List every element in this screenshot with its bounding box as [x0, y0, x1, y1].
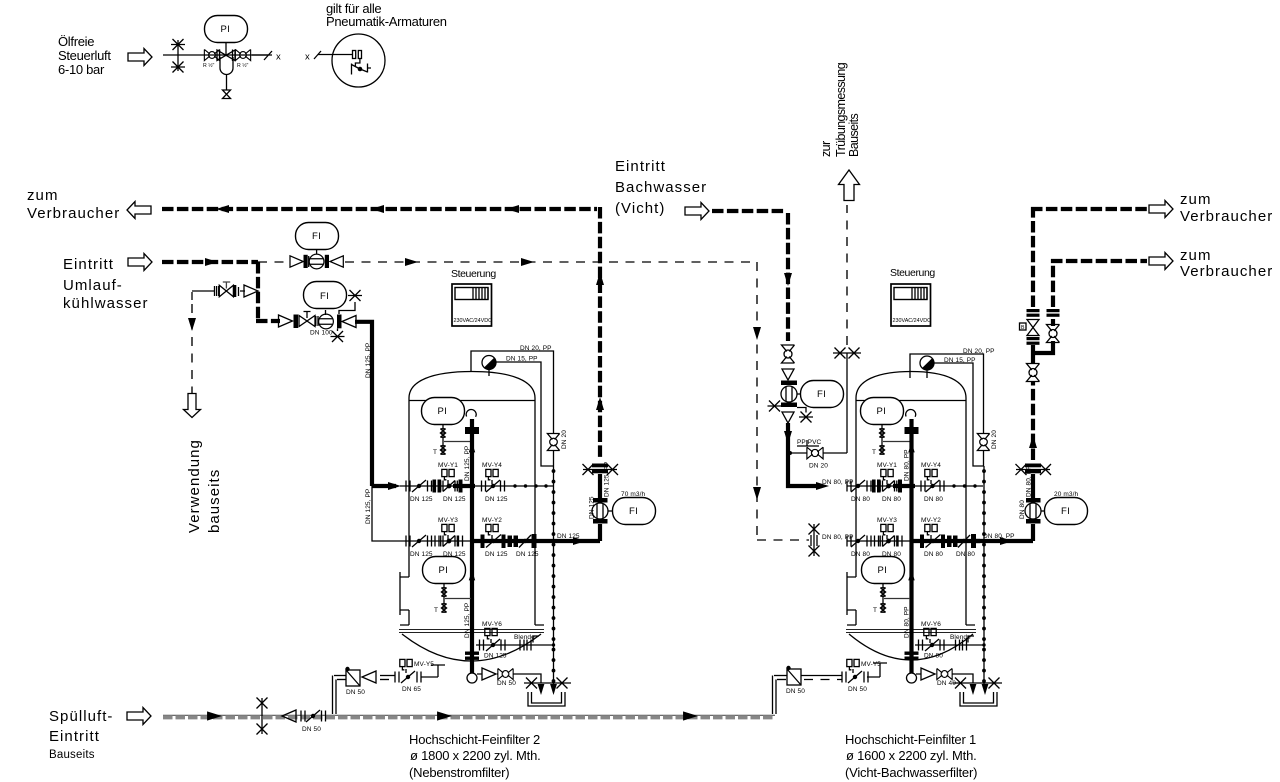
svg-text:DN 15, PP: DN 15, PP: [944, 357, 976, 364]
svg-text:MV-Y6: MV-Y6: [921, 621, 941, 628]
arrowhead spuelluft 2: [437, 711, 452, 720]
outlet column filter2: [583, 462, 619, 541]
pipe umlauf corner down: [256, 262, 260, 319]
svg-text:DN 80, PP: DN 80, PP: [904, 449, 911, 481]
drain exit stars vessel2: [953, 678, 1002, 707]
svg-text:DN 80: DN 80: [956, 551, 975, 558]
svg-text:Hochschicht-Feinfilter 2: Hochschicht-Feinfilter 2: [409, 732, 540, 747]
filter regulator legend: [217, 50, 235, 99]
svg-text:Pneumatik-Armaturen: Pneumatik-Armaturen: [326, 14, 447, 29]
pipe top product line: [162, 207, 597, 211]
svg-text:Umlauf-: Umlauf-: [63, 277, 123, 294]
svg-text:DN 80: DN 80: [882, 496, 901, 503]
svg-text:DN 80: DN 80: [851, 551, 870, 558]
pipe branch to row2: [372, 486, 406, 541]
star flange filter1 row2 inlet: [809, 524, 820, 557]
label Eintritt Bachwasser: [615, 158, 707, 217]
instrument PI legend: [205, 16, 248, 56]
svg-text:DN 80: DN 80: [924, 551, 943, 558]
arrow inlet umlauf: [128, 254, 152, 271]
vent star right of FI: [339, 290, 362, 314]
pipe to consumer right 2: [1051, 259, 1147, 263]
svg-text:230VAC/24VDC: 230VAC/24VDC: [893, 318, 932, 324]
arrowhead bachwasser down: [784, 273, 792, 286]
vessel shell filter1: [846, 372, 976, 661]
svg-text:DN 125, PP: DN 125, PP: [365, 343, 372, 378]
svg-text:DN 125, PP: DN 125, PP: [365, 489, 372, 524]
wire to x: [252, 51, 281, 63]
svg-text:Eintritt: Eintritt: [615, 158, 666, 175]
valve DN20 f1: [977, 430, 998, 451]
row1 manifold vessel2: [847, 462, 983, 503]
svg-text:FI: FI: [817, 389, 826, 400]
svg-text:DN 65: DN 65: [402, 686, 421, 693]
svg-text:T: T: [433, 449, 437, 456]
svg-text:DN 125, PP: DN 125, PP: [604, 462, 611, 497]
svg-text:MV-Y1: MV-Y1: [438, 462, 458, 469]
pipe to consumer right 1: [1031, 207, 1147, 211]
arrow verwendung bauseits outline: [184, 394, 201, 418]
svg-text:FI: FI: [1061, 506, 1070, 517]
label oelfreie steuerluft: [58, 34, 111, 77]
arrowhead up 1: [596, 272, 604, 285]
hand valve branch line: [192, 286, 245, 296]
svg-text:DN 125, PP: DN 125, PP: [464, 603, 471, 638]
svg-text:zur: zur: [819, 141, 833, 157]
pressure gauge vessel1: [482, 356, 496, 377]
svg-text:DN 125: DN 125: [410, 496, 433, 503]
control box Steuerung filter2: [451, 268, 496, 326]
pipe DN20 vent f1: [910, 354, 984, 466]
valve spuelluft DN50: [282, 710, 326, 733]
label zur Truebungsmessung rotated: [819, 62, 861, 157]
vent star below feed: [331, 329, 345, 343]
svg-text:DN 15, PP: DN 15, PP: [506, 356, 538, 363]
svg-text:DN 125: DN 125: [557, 533, 580, 540]
arrowhead left 2: [371, 205, 384, 213]
svg-text:DN 50: DN 50: [497, 680, 516, 687]
svg-text:DN 125: DN 125: [516, 551, 539, 558]
label Eintritt Umlaufkuehlwasser: [63, 256, 149, 312]
svg-text:MV-Y3: MV-Y3: [877, 517, 897, 524]
svg-text:MV-Y5: MV-Y5: [861, 661, 881, 668]
svg-text:PI: PI: [438, 406, 448, 417]
instrument FI 70m3h: [613, 491, 656, 525]
pipe feed riser filter2: [355, 320, 372, 486]
svg-text:DN 20, PP: DN 20, PP: [963, 348, 995, 355]
reducer down: [782, 369, 794, 380]
riser pipe vessel2: [904, 409, 919, 683]
row2 manifold vessel2: [847, 517, 980, 558]
svg-text:Bauseits: Bauseits: [847, 114, 861, 157]
check triangle to riser: [244, 285, 258, 297]
svg-text:DN 80: DN 80: [1019, 500, 1026, 519]
svg-text:PI: PI: [877, 406, 887, 417]
arrowhead air right 1: [405, 258, 418, 266]
svg-text:FI: FI: [312, 231, 321, 242]
label zum Verbraucher left: [27, 187, 120, 222]
valve R1/2 left: [203, 49, 220, 69]
arrowhead right: [205, 258, 218, 266]
pipe row2 to outlet: [540, 533, 600, 545]
instrument FI filter2 feed: [304, 282, 347, 316]
svg-text:Steuerung: Steuerung: [890, 267, 935, 279]
backwash air MV-Y5 vessel1: [333, 659, 446, 714]
arrowhead up 2: [596, 397, 604, 410]
svg-text:Eintritt: Eintritt: [63, 256, 114, 273]
arrowhead feed row1 f1: [816, 482, 829, 490]
backwash air MV-Y5 vessel2: [773, 659, 888, 714]
pipe filter1 feed down: [788, 423, 816, 486]
arrowhead down verwendung: [188, 318, 196, 331]
instrument FI 20m3h: [1045, 491, 1088, 525]
pipe bachwasser: [712, 211, 788, 341]
svg-text:230VAC/24VDC: 230VAC/24VDC: [454, 318, 493, 324]
svg-text:Verbraucher: Verbraucher: [1180, 263, 1273, 280]
svg-text:Spülluft-: Spülluft-: [49, 708, 113, 725]
control box Steuerung filter1: [890, 267, 935, 326]
flow meter filter1 feed: [781, 386, 797, 402]
pipe spuelluft gray: [163, 715, 775, 717]
drain exit stars vessel1: [524, 678, 571, 707]
svg-text:MV-Y4: MV-Y4: [482, 462, 502, 469]
svg-text:DN 20: DN 20: [991, 430, 998, 449]
pipe corner to filter2 outlet riser: [598, 207, 602, 460]
svg-text:ø 1800 x 2200 zyl. Mth.: ø 1800 x 2200 zyl. Mth.: [410, 748, 541, 763]
arrowhead left 3: [506, 205, 519, 213]
arrow spuelluft inlet: [127, 708, 151, 725]
svg-text:MV-Y2: MV-Y2: [482, 517, 502, 524]
pipe sample dashed up: [846, 205, 848, 345]
svg-text:Verbraucher: Verbraucher: [27, 205, 120, 222]
pressure gauge vessel2: [920, 356, 934, 378]
svg-text:MV-Y4: MV-Y4: [921, 462, 941, 469]
svg-text:DN 125: DN 125: [410, 551, 433, 558]
svg-text:T: T: [872, 449, 876, 456]
row1 manifold vessel1: [400, 462, 553, 503]
svg-text:MV-Y1: MV-Y1: [877, 462, 897, 469]
svg-text:Steuerung: Steuerung: [451, 268, 496, 280]
pipe control air down to filter1 row2: [756, 262, 758, 538]
svg-text:MV-Y2: MV-Y2: [921, 517, 941, 524]
svg-text:DN 125: DN 125: [485, 551, 508, 558]
svg-text:DN 80, PP: DN 80, PP: [904, 606, 911, 638]
svg-text:kühlwasser: kühlwasser: [63, 295, 149, 312]
svg-text:PI: PI: [439, 565, 449, 576]
valve DN20: [547, 430, 568, 451]
pipe DN20 vent: [471, 351, 554, 466]
arrowhead air down 1: [753, 327, 761, 340]
svg-text:Trübungsmessung: Trübungsmessung: [834, 62, 848, 157]
flow meter umlauf bypass: [290, 254, 343, 269]
arrow steuerluft inlet: [128, 49, 152, 66]
pipe air to row2 star: [757, 539, 809, 541]
drain beaded line vessel1: [553, 466, 555, 686]
svg-text:bauseits: bauseits: [206, 469, 223, 533]
caption filter2: [409, 732, 541, 780]
svg-text:DN 80: DN 80: [924, 496, 943, 503]
arrow to truebung outline up: [839, 170, 860, 201]
svg-text:DN 20: DN 20: [561, 430, 568, 449]
arrow right 2: [1149, 253, 1173, 270]
svg-text:Verbraucher: Verbraucher: [1180, 208, 1273, 225]
node x to solenoid circle: [305, 51, 353, 63]
svg-text:FI: FI: [629, 506, 638, 517]
svg-text:x: x: [276, 52, 281, 63]
svg-text:ø 1600 x 2200 zyl. Mth.: ø 1600 x 2200 zyl. Mth.: [846, 748, 977, 763]
instrument PI vessel2 bottom: [862, 557, 911, 615]
hand valve verwendung: [219, 282, 236, 297]
svg-text:(Nebenstromfilter): (Nebenstromfilter): [409, 765, 509, 780]
reducer down 2: [782, 412, 794, 423]
solenoid pilot circle: [332, 34, 385, 87]
svg-text:DN 80, PP: DN 80, PP: [1026, 465, 1033, 497]
svg-text:Ölfreie: Ölfreie: [58, 34, 94, 49]
svg-text:zum: zum: [27, 187, 59, 204]
drain DN50 vessel1: [477, 668, 541, 687]
svg-text:(Vicht): (Vicht): [615, 200, 665, 217]
vent star left: [768, 401, 782, 412]
svg-text:PI: PI: [878, 565, 888, 576]
svg-text:PP PVC: PP PVC: [797, 439, 822, 446]
row2 manifold vessel1: [406, 517, 540, 558]
instrument PI vessel1 bottom: [423, 557, 472, 615]
svg-text:DN 100: DN 100: [310, 330, 333, 337]
svg-text:DN 50: DN 50: [302, 726, 321, 733]
valve bachwasser isolation: [782, 345, 795, 363]
pipe feed into row1: [372, 484, 396, 488]
svg-text:DN 125: DN 125: [443, 496, 466, 503]
branch to second consumer: [1033, 263, 1060, 353]
wire legend main: [163, 54, 272, 56]
pipe row2 to outlet f1: [976, 533, 1033, 545]
vent star legend: [171, 39, 185, 73]
svg-text:DN 20: DN 20: [809, 463, 828, 470]
instrument PI vessel1 top: [422, 398, 472, 457]
vent stars sample: [833, 348, 861, 359]
outlet column filter1 lower: [1016, 464, 1052, 542]
svg-text:DN 80, PP: DN 80, PP: [822, 534, 854, 541]
svg-text:DN 80: DN 80: [851, 496, 870, 503]
backwash outlet MV-Y6 f1: [915, 621, 986, 660]
vessel shell filter2: [399, 372, 544, 662]
svg-text:DN 125, PP: DN 125, PP: [464, 446, 471, 481]
svg-text:Verwendung: Verwendung: [186, 439, 203, 533]
arrow right 1: [1149, 201, 1173, 218]
arrowhead feed row1: [388, 482, 401, 490]
instrument FI filter1 feed: [797, 381, 844, 408]
label spuelluft: [49, 708, 113, 761]
svg-text:DN 80, PP: DN 80, PP: [822, 479, 854, 486]
svg-text:Bachwasser: Bachwasser: [615, 179, 707, 196]
label gilt fuer alle: [326, 1, 447, 29]
label Verwendung bauseits rotated: [186, 439, 223, 533]
svg-text:MV-Y6: MV-Y6: [482, 621, 502, 628]
valve R1/2 right: [235, 49, 250, 69]
drain DN40 vessel2: [916, 668, 973, 687]
arrowhead left 1: [216, 205, 229, 213]
svg-text:DN 20, PP: DN 20, PP: [520, 345, 552, 352]
svg-text:Eintritt: Eintritt: [49, 728, 100, 745]
arrowhead spuelluft 1: [207, 711, 222, 720]
svg-text:FI: FI: [320, 291, 329, 302]
instrument PI vessel2 top: [861, 398, 911, 457]
flange feed meter top: [781, 381, 797, 386]
svg-text:DN 125: DN 125: [484, 653, 507, 660]
label zum Verbraucher right 1: [1180, 191, 1273, 225]
svg-text:(Vicht-Bachwasserfilter): (Vicht-Bachwasserfilter): [845, 765, 977, 780]
drain beaded line vessel2: [983, 466, 985, 686]
arrow bachwasser inlet: [685, 203, 709, 220]
arrow to consumer left: [127, 202, 151, 219]
pipe verwendung dashed down: [191, 292, 193, 393]
svg-text:DN 125: DN 125: [589, 496, 596, 519]
svg-text:Bauseits: Bauseits: [49, 749, 95, 761]
sample line PP PVC: [790, 439, 847, 470]
svg-text:DN 50: DN 50: [848, 686, 867, 693]
svg-text:zum: zum: [1180, 247, 1212, 264]
backwash outlet MV-Y6: [476, 621, 555, 660]
svg-text:Steuerluft: Steuerluft: [58, 48, 111, 63]
label zum Verbraucher right 2: [1180, 247, 1273, 280]
caption filter1: [845, 732, 977, 780]
outlet column filter1 upper: [1020, 211, 1040, 460]
svg-text:6-10 bar: 6-10 bar: [58, 62, 105, 77]
svg-text:Hochschicht-Feinfilter 1: Hochschicht-Feinfilter 1: [845, 732, 976, 747]
riser pipe vessel1: [464, 409, 479, 683]
svg-text:zum: zum: [1180, 191, 1212, 208]
svg-text:MV-Y3: MV-Y3: [438, 517, 458, 524]
svg-text:DN 125: DN 125: [485, 496, 508, 503]
arrowhead feed down: [784, 431, 792, 444]
vent star spuelluft: [257, 698, 268, 735]
vent star lower right: [797, 408, 813, 423]
pipe control air dashed: [258, 261, 755, 263]
svg-text:R ½": R ½": [237, 62, 249, 69]
svg-text:MV-Y5: MV-Y5: [414, 661, 434, 668]
svg-text:DN 80, PP: DN 80, PP: [983, 533, 1015, 540]
svg-text:R ½": R ½": [203, 62, 215, 69]
pipe umlauf inlet: [162, 260, 258, 264]
svg-text:Blende: Blende: [514, 634, 535, 641]
svg-text:T: T: [434, 607, 438, 614]
arrowhead air right 2: [521, 258, 534, 266]
pipe umlauf to filter2 feed: [256, 319, 280, 323]
svg-text:T: T: [873, 607, 877, 614]
pipe DN15: [496, 362, 554, 466]
svg-text:DN 80: DN 80: [924, 653, 943, 660]
pipe DN15 f1: [934, 363, 984, 466]
instrument FI umlauf: [296, 223, 339, 255]
svg-text:DN 50: DN 50: [786, 688, 805, 695]
pipe sample riser: [846, 353, 848, 453]
flange feed meter bottom: [781, 403, 797, 408]
svg-text:x: x: [305, 52, 310, 63]
arrowhead air down 2: [753, 487, 761, 500]
svg-text:B: B: [1021, 325, 1025, 331]
svg-text:PI: PI: [221, 24, 231, 35]
svg-text:DN 50: DN 50: [346, 689, 365, 696]
feed valve group filter2: [279, 312, 357, 329]
